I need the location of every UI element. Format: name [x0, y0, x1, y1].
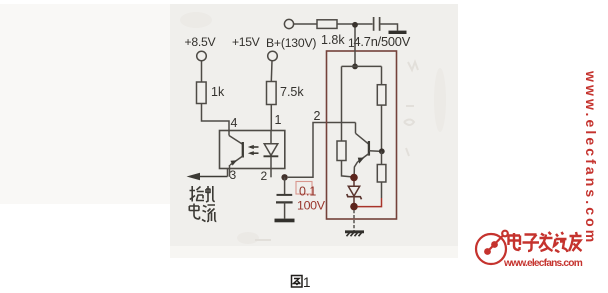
svg-text:4.7n/500V: 4.7n/500V — [354, 34, 411, 49]
zener VD1 — [353, 181, 355, 186]
terminal B+(130V) — [284, 19, 293, 28]
figure caption 图1 — [292, 276, 303, 288]
LED D1 — [270, 131, 272, 144]
node J1 — [352, 22, 358, 28]
svg-text:7.5k: 7.5k — [280, 85, 304, 99]
svg-text:1: 1 — [275, 113, 282, 127]
capacitor C2 0.1/100V — [284, 177, 286, 194]
ground G3 — [345, 230, 364, 233]
svg-text:1: 1 — [303, 275, 311, 290]
label 电流 (current) — [189, 204, 216, 222]
svg-text:1: 1 — [348, 36, 355, 50]
resistor R5 1.8k — [317, 20, 337, 29]
wire node 2 to right box — [288, 123, 356, 178]
wire from J1 into box — [354, 28, 356, 65]
svg-text:B+(130V): B+(130V) — [266, 36, 316, 50]
light arrow — [250, 152, 259, 154]
control current arrow — [191, 176, 228, 178]
wire — [202, 104, 230, 132]
wire — [270, 61, 273, 82]
ground G2 — [275, 219, 295, 223]
resistor R3 — [377, 85, 386, 105]
capacitor C1 4.7n/500V — [373, 17, 375, 31]
optocoupler U1 box — [220, 131, 285, 169]
svg-text:4: 4 — [231, 116, 238, 130]
transistor Q1 — [355, 123, 357, 134]
wire — [337, 23, 373, 25]
watermark logo — [476, 231, 508, 264]
wire — [294, 23, 317, 25]
svg-text:www.elecfans.com: www.elecfans.com — [583, 70, 599, 245]
label 控制 (control) — [190, 186, 215, 202]
svg-text:1k: 1k — [211, 85, 225, 99]
svg-text:2: 2 — [314, 109, 321, 123]
node J3 — [352, 64, 358, 70]
svg-text:3: 3 — [230, 168, 237, 182]
regulator block U2 box — [327, 51, 397, 219]
wire — [201, 61, 203, 82]
svg-text:1.8k: 1.8k — [321, 33, 345, 47]
resistor R2 7.5k — [267, 82, 277, 105]
svg-text:100V: 100V — [297, 199, 326, 213]
svg-text:+8.5V: +8.5V — [185, 35, 217, 49]
node J4 — [379, 148, 385, 154]
svg-text:0.1: 0.1 — [299, 185, 316, 199]
wire right branch — [381, 66, 383, 84]
node J6 — [350, 203, 358, 211]
svg-text:+15V: +15V — [232, 35, 261, 49]
wire — [381, 105, 383, 151]
watermark 电子发烧友 — [509, 232, 582, 253]
wire — [270, 105, 272, 132]
node J2 — [281, 174, 287, 180]
node J5 — [350, 174, 358, 182]
red feedback wire — [357, 198, 381, 207]
wire left branch — [341, 66, 343, 141]
resistor R1 1k — [197, 82, 207, 104]
red annotation box — [296, 182, 312, 195]
wire to ground — [353, 210, 355, 232]
wire — [380, 24, 397, 31]
svg-text:2: 2 — [261, 169, 268, 183]
wire top rail — [342, 65, 382, 67]
ground G1 — [389, 31, 407, 34]
wire — [342, 161, 353, 177]
phototransistor Q2 — [228, 131, 230, 136]
resistor R4 — [377, 165, 386, 183]
resistor R6 — [337, 141, 346, 161]
light arrow — [250, 146, 259, 148]
svg-text:www.elecfans.com: www.elecfans.com — [503, 258, 583, 269]
